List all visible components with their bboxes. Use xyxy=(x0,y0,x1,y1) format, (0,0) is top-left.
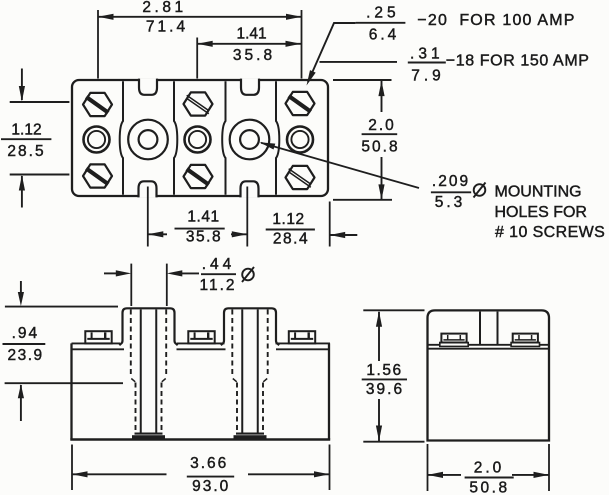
svg-text:93.0: 93.0 xyxy=(192,478,230,495)
svg-text:1.12: 1.12 xyxy=(272,211,304,228)
svg-text:50.8: 50.8 xyxy=(361,138,399,155)
svg-text:1.41: 1.41 xyxy=(187,209,219,226)
svg-text:# 10 SCREWS: # 10 SCREWS xyxy=(495,224,605,241)
svg-text:−18 FOR 150 AMP: −18 FOR 150 AMP xyxy=(446,53,590,70)
svg-text:35.8: 35.8 xyxy=(186,229,222,246)
svg-text:23.9: 23.9 xyxy=(8,347,44,364)
svg-text:.94: .94 xyxy=(12,325,40,342)
svg-text:.209: .209 xyxy=(432,173,470,190)
svg-text:71.4: 71.4 xyxy=(146,19,188,36)
svg-text:.25: .25 xyxy=(366,5,400,22)
svg-text:.44: .44 xyxy=(202,256,236,273)
svg-text:2.0: 2.0 xyxy=(368,117,396,134)
svg-text:3.66: 3.66 xyxy=(190,455,228,472)
svg-text:HOLES FOR: HOLES FOR xyxy=(495,204,587,221)
svg-text:MOUNTING: MOUNTING xyxy=(495,183,582,200)
svg-text:7.9: 7.9 xyxy=(411,68,445,85)
svg-text:35.8: 35.8 xyxy=(233,47,275,64)
svg-text:5.3: 5.3 xyxy=(435,194,466,211)
svg-text:2.81: 2.81 xyxy=(142,0,186,16)
svg-text:39.6: 39.6 xyxy=(366,381,404,398)
svg-text:6.4: 6.4 xyxy=(369,27,400,44)
svg-text:50.8: 50.8 xyxy=(469,479,509,495)
svg-text:2.0: 2.0 xyxy=(474,459,505,476)
svg-text:1.41: 1.41 xyxy=(237,26,267,43)
svg-text:1.56: 1.56 xyxy=(366,362,402,379)
svg-text:28.5: 28.5 xyxy=(7,143,45,160)
svg-text:28.4: 28.4 xyxy=(273,231,309,248)
svg-text:.31: .31 xyxy=(410,45,444,62)
svg-text:1.12: 1.12 xyxy=(11,122,41,139)
svg-text:11.2: 11.2 xyxy=(199,277,236,294)
svg-text:−20 FOR 100 AMP: −20 FOR 100 AMP xyxy=(417,12,575,29)
